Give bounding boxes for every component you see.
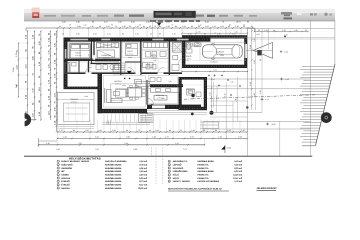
svg-text:GARDRÓB: GARDRÓB <box>61 167 72 170</box>
svg-text:1,95: 1,95 <box>146 21 150 24</box>
svg-text:+0,00: +0,00 <box>271 123 276 126</box>
svg-text:90: 90 <box>143 25 145 28</box>
svg-text:FEDETT TERASZ: FEDETT TERASZ <box>173 180 191 183</box>
svg-text:KERÁMIA BURK.: KERÁMIA BURK. <box>105 170 122 173</box>
svg-text:GARÁZS: GARÁZS <box>210 61 218 64</box>
svg-text:90: 90 <box>99 25 101 28</box>
svg-text:KÖZL.: KÖZL. <box>151 54 157 57</box>
svg-text:FAGYÁLLÓ KERÁMIA: FAGYÁLLÓ KERÁMIA <box>105 160 127 163</box>
svg-text:6,20 m2: 6,20 m2 <box>234 170 242 173</box>
svg-text:1,40: 1,40 <box>56 148 60 151</box>
svg-text:3,65: 3,65 <box>62 21 66 24</box>
svg-text:5,06 m2: 5,06 m2 <box>139 167 147 170</box>
svg-text:WC: WC <box>61 170 65 173</box>
svg-text:8,20 m2: 8,20 m2 <box>234 167 242 170</box>
svg-text:6,40: 6,40 <box>211 78 214 81</box>
svg-text:1,50: 1,50 <box>85 129 89 132</box>
svg-text:TERASZ: TERASZ <box>70 98 78 101</box>
svg-text:7,08: 7,08 <box>133 148 137 151</box>
svg-text:KERÁMIA BURK.: KERÁMIA BURK. <box>198 170 215 173</box>
svg-text:2,45: 2,45 <box>218 136 222 139</box>
svg-text:±0,00: ±0,00 <box>227 147 231 150</box>
svg-text:KERÁMIA BURK.: KERÁMIA BURK. <box>105 187 122 190</box>
svg-text:1,50: 1,50 <box>227 129 231 132</box>
svg-text:PARKETTA: PARKETTA <box>198 167 210 170</box>
svg-text:15: 15 <box>169 178 171 180</box>
svg-text:1,35: 1,35 <box>166 25 169 28</box>
svg-text:60: 60 <box>59 25 61 28</box>
svg-text:HÁLÓ: HÁLÓ <box>127 50 133 53</box>
svg-text:4,25: 4,25 <box>95 136 99 139</box>
svg-text:1,30: 1,30 <box>235 25 238 28</box>
svg-text:45: 45 <box>149 25 151 28</box>
svg-text:1,20: 1,20 <box>76 21 80 24</box>
svg-text:1,30: 1,30 <box>172 33 175 36</box>
svg-text:5,12: 5,12 <box>183 147 187 150</box>
svg-text:5,54: 5,54 <box>249 45 252 49</box>
svg-text:KERÁMIA BURK.: KERÁMIA BURK. <box>105 183 122 186</box>
svg-text:90: 90 <box>122 33 124 36</box>
svg-text:FEDETT BEJÁRATI TERASZ: FEDETT BEJÁRATI TERASZ <box>61 160 90 163</box>
svg-text:1,20: 1,20 <box>241 129 245 132</box>
svg-text:PARKETTA: PARKETTA <box>198 177 210 180</box>
svg-text:1,40 m2: 1,40 m2 <box>139 170 147 173</box>
svg-text:1,10: 1,10 <box>212 25 215 28</box>
svg-text:FÜRDŐSZOBA: FÜRDŐSZOBA <box>173 170 188 173</box>
svg-text:3,80: 3,80 <box>76 33 79 36</box>
svg-text:10: 10 <box>169 161 171 163</box>
svg-text:TERASZ: TERASZ <box>186 88 194 91</box>
svg-text:KONYHA: KONYHA <box>156 94 165 97</box>
svg-text:5,40 m2: 5,40 m2 <box>234 163 242 166</box>
svg-text:1,50: 1,50 <box>112 129 116 132</box>
svg-text:-0,15: -0,15 <box>265 98 269 101</box>
svg-text:KAMRA: KAMRA <box>61 173 69 176</box>
svg-text:KERÁMIA BURK.: KERÁMIA BURK. <box>105 173 122 176</box>
svg-text:3,20: 3,20 <box>190 136 194 139</box>
svg-text:8,00 m2: 8,00 m2 <box>139 177 147 180</box>
svg-text:12,20 m2: 12,20 m2 <box>233 173 243 176</box>
svg-text:1,40: 1,40 <box>152 136 156 139</box>
svg-text:NAPPALI: NAPPALI <box>61 187 70 190</box>
svg-text:7,07: 7,07 <box>95 148 99 151</box>
svg-text:5,40 m2: 5,40 m2 <box>234 160 242 163</box>
svg-text:KERÁMIA BURK.: KERÁMIA BURK. <box>105 180 122 183</box>
svg-text:1,75: 1,75 <box>165 136 169 139</box>
svg-text:7,08: 7,08 <box>124 142 128 145</box>
svg-text:KONYHA: KONYHA <box>61 177 71 180</box>
svg-text:75: 75 <box>222 21 224 24</box>
svg-text:95: 95 <box>215 129 217 132</box>
svg-text:8,70 m2: 8,70 m2 <box>139 180 147 183</box>
svg-text:ÉTKEZŐ: ÉTKEZŐ <box>61 183 70 186</box>
svg-text:1,10: 1,10 <box>107 33 110 36</box>
svg-text:3,10: 3,10 <box>249 82 252 86</box>
svg-text:3,05: 3,05 <box>131 21 135 24</box>
svg-text:2,40: 2,40 <box>253 93 256 97</box>
svg-text:1,75: 1,75 <box>223 93 226 96</box>
svg-text:12,40: 12,40 <box>12 68 15 73</box>
svg-text:2,47: 2,47 <box>104 21 108 24</box>
svg-text:1,25: 1,25 <box>135 33 138 36</box>
svg-text:12,57 m2: 12,57 m2 <box>233 177 243 180</box>
svg-text:1,40: 1,40 <box>46 142 50 145</box>
svg-text:80: 80 <box>175 25 177 28</box>
svg-text:60: 60 <box>150 33 152 36</box>
svg-text:ABLSZÉLET K.: ABLSZÉLET K. <box>173 160 188 163</box>
svg-text:1,45: 1,45 <box>191 129 195 132</box>
svg-text:FAGYÁLLÓ KERÁMIA: FAGYÁLLÓ KERÁMIA <box>198 180 220 183</box>
svg-text:12: 12 <box>169 168 171 170</box>
svg-text:3,60: 3,60 <box>15 84 18 88</box>
svg-text:95: 95 <box>191 25 193 28</box>
svg-text:1,20: 1,20 <box>182 25 185 28</box>
svg-text:1,20: 1,20 <box>259 90 262 94</box>
svg-text:1,75: 1,75 <box>59 129 63 132</box>
svg-text:1,50: 1,50 <box>220 25 223 28</box>
svg-text:55: 55 <box>129 25 131 28</box>
svg-text:NAPPALI: NAPPALI <box>114 80 122 83</box>
svg-text:1,60: 1,60 <box>238 136 242 139</box>
svg-text:5,05: 5,05 <box>256 33 260 36</box>
svg-text:ÉTKEZŐ: ÉTKEZŐ <box>61 180 70 183</box>
svg-text:PARKETTA: PARKETTA <box>198 173 210 176</box>
svg-text:1,80: 1,80 <box>253 60 256 64</box>
svg-text:95: 95 <box>251 25 253 28</box>
svg-text:90: 90 <box>247 21 249 24</box>
svg-text:75: 75 <box>154 25 156 28</box>
svg-text:KERÁMIA BURK.: KERÁMIA BURK. <box>105 163 122 166</box>
svg-text:1,05: 1,05 <box>205 25 208 28</box>
svg-text:45: 45 <box>149 129 151 132</box>
svg-text:9,47 m2: 9,47 m2 <box>139 183 147 186</box>
svg-text:1,55: 1,55 <box>93 33 96 36</box>
svg-text:HÁLÓ: HÁLÓ <box>173 177 179 180</box>
svg-text:1,45: 1,45 <box>90 25 93 28</box>
svg-text:90: 90 <box>92 21 94 24</box>
svg-text:3,90: 3,90 <box>77 25 80 28</box>
svg-text:1,44 m2: 1,44 m2 <box>139 160 147 163</box>
svg-text:GARDRÓB: GARDRÓB <box>101 54 111 57</box>
svg-text:1,79 m2: 1,79 m2 <box>234 180 242 183</box>
svg-text:SZÉLFOGÓ: SZÉLFOGÓ <box>61 163 73 166</box>
svg-text:2,75: 2,75 <box>15 53 18 57</box>
svg-text:PARKETTA: PARKETTA <box>198 163 210 166</box>
svg-text:2,20 m2: 2,20 m2 <box>139 173 147 176</box>
svg-text:2,79 m2: 2,79 m2 <box>139 163 147 166</box>
svg-text:1,10: 1,10 <box>135 25 138 28</box>
svg-text:KERÁMIA BURK.: KERÁMIA BURK. <box>105 177 122 180</box>
svg-text:85: 85 <box>159 33 161 36</box>
svg-text:1,20: 1,20 <box>106 25 109 28</box>
svg-text:GARÁZS: GARÁZS <box>216 51 225 54</box>
svg-text:60: 60 <box>198 25 200 28</box>
svg-text:90: 90 <box>73 129 75 132</box>
svg-text:5,12: 5,12 <box>175 142 179 145</box>
svg-text:90: 90 <box>169 129 171 132</box>
svg-text:90: 90 <box>159 25 161 28</box>
svg-text:1,00: 1,00 <box>155 129 159 132</box>
svg-text:2,10: 2,10 <box>63 136 67 139</box>
svg-text:5,54: 5,54 <box>213 69 216 72</box>
svg-text:75: 75 <box>115 25 117 28</box>
svg-text:60: 60 <box>203 129 205 132</box>
svg-text:16,07: 16,07 <box>236 21 241 24</box>
svg-text:1,50: 1,50 <box>118 21 122 24</box>
svg-text:60: 60 <box>243 25 245 28</box>
svg-text:14: 14 <box>169 174 171 176</box>
svg-text:HÁLÓ: HÁLÓ <box>173 173 179 176</box>
svg-text:HÁLÓ: HÁLÓ <box>75 52 81 55</box>
svg-text:95: 95 <box>259 59 262 61</box>
svg-text:85: 85 <box>228 25 230 28</box>
svg-text:16: 16 <box>169 181 171 183</box>
svg-text:KERÁMIA BURK.: KERÁMIA BURK. <box>198 160 215 163</box>
svg-text:90: 90 <box>126 129 128 132</box>
svg-text:13: 13 <box>169 171 171 173</box>
svg-text:2,95: 2,95 <box>126 136 130 139</box>
svg-text:HELYISÉGKIMUTATÁS: HELYISÉGKIMUTATÁS <box>69 156 101 160</box>
svg-text:FÜRDŐ: FÜRDŐ <box>185 55 192 58</box>
svg-text:6,40: 6,40 <box>205 21 209 24</box>
svg-text:+0,45: +0,45 <box>285 78 289 81</box>
svg-text:NETTÓ FŰTÖTT+HASZNÁLATI ALAPTE: NETTÓ FŰTÖTT+HASZNÁLATI ALAPTERÜLET: 88,… <box>168 187 223 190</box>
svg-text:2,35: 2,35 <box>253 38 256 42</box>
svg-text:20,02 m2: 20,02 m2 <box>138 187 148 190</box>
svg-text:75: 75 <box>138 129 140 132</box>
svg-text:7,07: 7,07 <box>78 142 82 145</box>
svg-text:55: 55 <box>180 129 182 132</box>
svg-text:11: 11 <box>169 164 171 166</box>
svg-text:KERÁMIA BURK.: KERÁMIA BURK. <box>105 167 122 170</box>
svg-text:1,00: 1,00 <box>98 129 102 132</box>
svg-text:LÉPCSŐ: LÉPCSŐ <box>173 163 182 166</box>
svg-text:DOLGOZÓ: DOLGOZÓ <box>173 167 184 170</box>
svg-text:1,35: 1,35 <box>122 25 125 28</box>
